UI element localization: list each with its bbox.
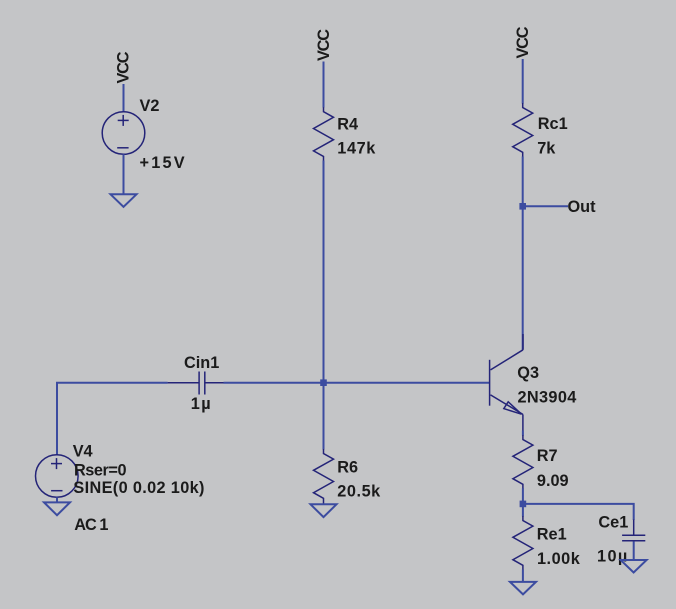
wire Out stub	[523, 205, 568, 207]
svg-text:Re1: Re1	[537, 526, 567, 544]
svg-text:R6: R6	[337, 459, 358, 477]
wire V4 minus to ground	[56, 497, 58, 502]
wire Rc1 to Out node	[522, 157, 524, 207]
ground (Re1)	[510, 582, 536, 595]
svg-text:1µ: 1µ	[191, 395, 212, 413]
ground (Ce1)	[621, 560, 647, 573]
node center junction	[320, 379, 327, 386]
value SINE	[73, 479, 204, 497]
svg-text:AC 1: AC 1	[74, 516, 108, 534]
svg-text:Rc1: Rc1	[538, 115, 568, 133]
voltage source V2	[102, 112, 145, 155]
ground (V2)	[111, 194, 137, 207]
svg-text:Q3: Q3	[517, 364, 539, 382]
value +15V	[140, 154, 187, 172]
label R7	[537, 447, 558, 465]
net label VCC (R4 column)	[315, 29, 333, 61]
net label VCC (Rc1 column)	[514, 26, 532, 58]
value 1u	[191, 395, 212, 413]
value 2N3904	[518, 389, 577, 407]
voltage source V4	[36, 455, 79, 498]
resistor R4	[314, 107, 334, 161]
value AC 1	[74, 516, 108, 534]
label Ce1	[598, 514, 628, 532]
wire R7 to emitter junction	[522, 488, 524, 504]
wire VCC flag to R4	[323, 62, 325, 108]
wire Cin1 to center junction	[224, 382, 324, 384]
label V4	[73, 442, 93, 460]
svg-text:R4: R4	[337, 115, 358, 133]
ground (R6)	[311, 504, 337, 517]
svg-text:2N3904: 2N3904	[518, 389, 577, 407]
svg-text:VCC: VCC	[115, 51, 133, 83]
wire V4 to Cin1 (vertical riser)	[57, 383, 168, 455]
capacitor Ce1	[622, 520, 645, 541]
svg-text:9.09: 9.09	[537, 472, 569, 490]
svg-text:147k: 147k	[337, 139, 376, 157]
resistor R6	[314, 449, 334, 505]
label V2	[140, 97, 160, 115]
value 1.00k	[537, 550, 581, 568]
wire V2 minus terminal to ground	[123, 154, 125, 194]
wire Q3 emitter to R7	[522, 431, 524, 436]
wire R4 to center junction	[323, 161, 325, 383]
value 7k	[537, 140, 556, 158]
transistor Q3	[490, 334, 523, 431]
resistor Re1	[513, 516, 533, 570]
svg-text:Out: Out	[568, 198, 597, 216]
wire emitter junction to Re1	[522, 504, 524, 517]
label Cin1	[184, 354, 219, 372]
wire VCC flag to V2 plus terminal	[123, 84, 125, 112]
wire Re1 to ground	[522, 570, 524, 582]
label R4	[337, 115, 358, 133]
svg-text:V2: V2	[140, 97, 160, 115]
value Rser=0	[74, 462, 126, 480]
svg-text:Rser=0: Rser=0	[74, 462, 126, 480]
label R6	[337, 459, 358, 477]
label Out	[568, 198, 597, 216]
svg-text:Ce1: Ce1	[598, 514, 628, 532]
label Rc1	[538, 115, 568, 133]
svg-text:VCC: VCC	[514, 26, 532, 58]
value 9.09	[537, 472, 569, 490]
ground (V4)	[44, 502, 70, 515]
wire Ce1 to ground	[633, 541, 635, 560]
node emitter junction	[520, 501, 527, 508]
resistor Rc1	[513, 103, 533, 157]
resistor R7	[513, 435, 533, 489]
svg-text:R7: R7	[537, 447, 558, 465]
label Q3	[517, 364, 539, 382]
svg-text:SINE(0 0.02 10k): SINE(0 0.02 10k)	[73, 479, 204, 497]
wire Out node to Q3 collector	[522, 206, 524, 349]
svg-text:20.5k: 20.5k	[337, 483, 381, 501]
svg-text:7k: 7k	[537, 140, 556, 158]
svg-text:1.00k: 1.00k	[537, 550, 581, 568]
net label VCC (V2 column)	[115, 51, 133, 83]
wire emitter junction to Ce1	[523, 504, 634, 520]
svg-text:VCC: VCC	[315, 29, 333, 61]
svg-text:V4: V4	[73, 442, 93, 460]
value 147k	[337, 139, 376, 157]
svg-text:+15V: +15V	[140, 154, 187, 172]
value 20.5k	[337, 483, 381, 501]
wire center junction to R6	[323, 383, 325, 450]
label Re1	[537, 526, 567, 544]
capacitor Cin1	[168, 372, 224, 395]
wire VCC flag to Rc1	[522, 59, 524, 104]
node Out junction	[519, 203, 526, 210]
wire center junction to Q3 base	[324, 382, 490, 384]
value 10u	[597, 548, 629, 566]
svg-text:Cin1: Cin1	[184, 354, 219, 372]
